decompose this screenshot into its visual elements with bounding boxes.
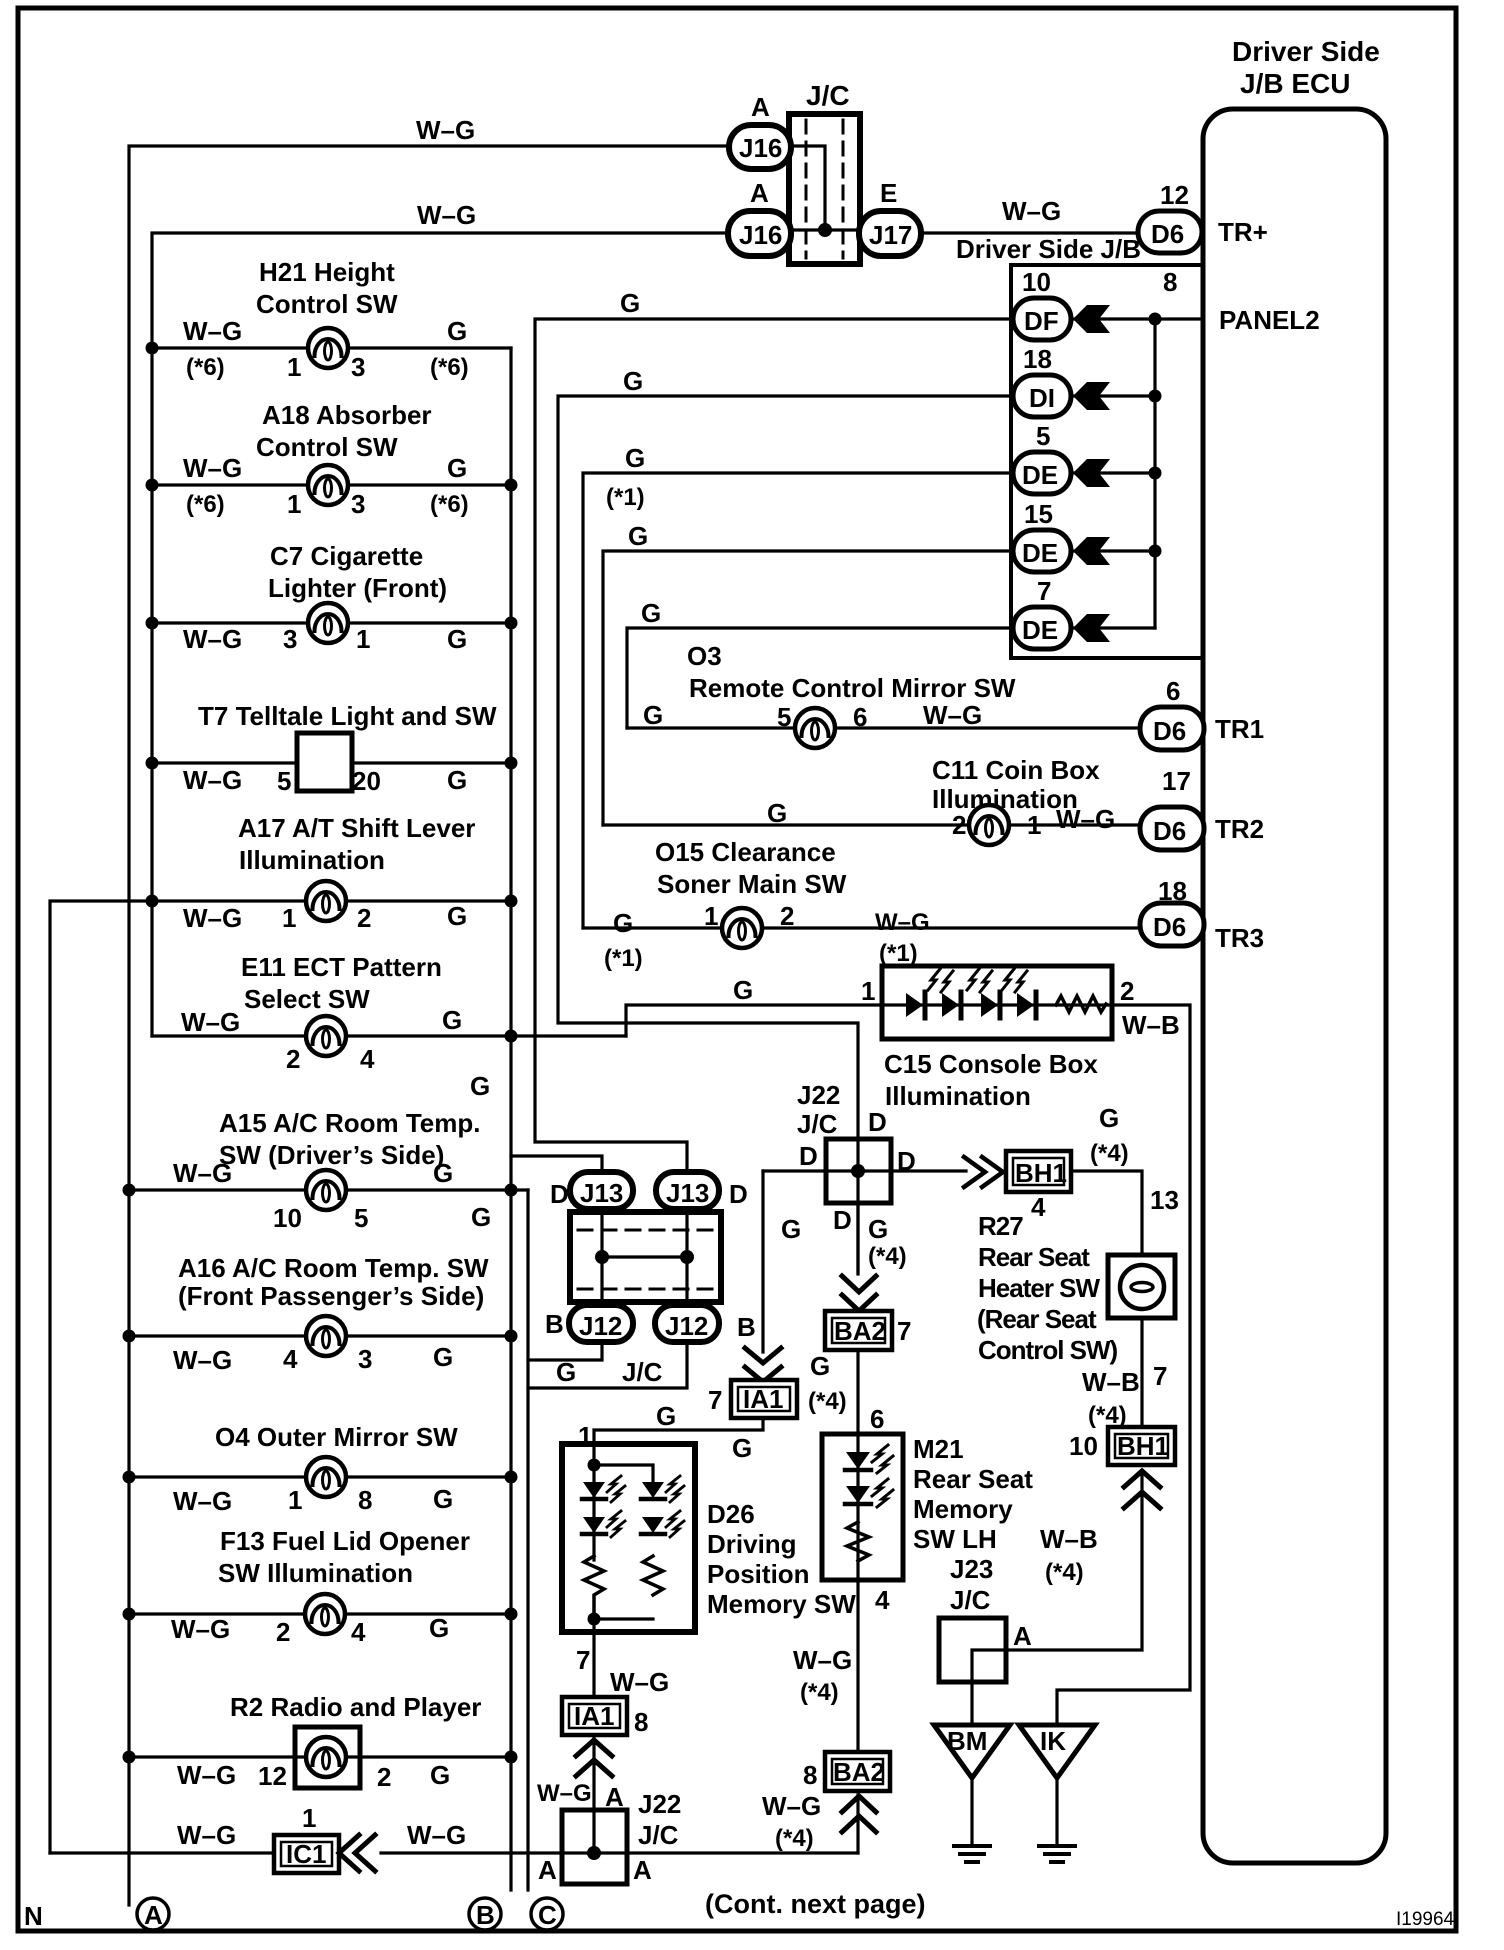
arrow below BH1 10 bbox=[1124, 1471, 1160, 1508]
svg-text:D6: D6 bbox=[1153, 716, 1186, 746]
svg-text:3: 3 bbox=[283, 624, 297, 654]
svg-text:G: G bbox=[868, 1214, 888, 1244]
connector DE pin 15 bbox=[1013, 499, 1071, 572]
svg-text:A17 A/T Shift Lever: A17 A/T Shift Lever bbox=[238, 813, 475, 843]
connector DF pin 10 bbox=[1013, 267, 1071, 340]
R27 Rear Seat Heater SW bbox=[977, 1211, 1175, 1365]
svg-text:7: 7 bbox=[708, 1385, 722, 1415]
LED R2 in D26 bbox=[641, 1511, 684, 1537]
wire through J/C to J17 bbox=[791, 228, 858, 231]
svg-text:G: G bbox=[447, 765, 467, 795]
svg-text:3: 3 bbox=[351, 352, 365, 382]
svg-text:J16: J16 bbox=[739, 133, 782, 163]
svg-text:W–G: W–G bbox=[923, 700, 982, 730]
wire G IA1 to D26 pin 1 bbox=[578, 1401, 763, 1465]
svg-text:J22: J22 bbox=[797, 1080, 840, 1110]
svg-text:C15 Console Box: C15 Console Box bbox=[884, 1049, 1098, 1079]
wire W-G J17 to D6 TR+ bbox=[921, 196, 1138, 233]
svg-text:2: 2 bbox=[286, 1044, 300, 1074]
wire G J/C J12 right to bus C bbox=[528, 1342, 687, 1388]
junction connector J/C box top bbox=[789, 80, 860, 264]
svg-text:5: 5 bbox=[354, 1203, 368, 1233]
svg-text:H21 Height: H21 Height bbox=[259, 257, 395, 287]
wire PANEL2 pin 8 bbox=[1071, 267, 1320, 335]
connector BH1 pin 10 bbox=[1069, 1427, 1175, 1465]
svg-text:J12: J12 bbox=[665, 1311, 708, 1341]
svg-text:J13: J13 bbox=[580, 1178, 623, 1208]
connector J16 pin A (top) bbox=[729, 92, 791, 169]
svg-text:W–G: W–G bbox=[416, 115, 475, 145]
svg-text:G: G bbox=[429, 1613, 449, 1643]
wire D26 pin 7 to IA1 bbox=[576, 1619, 669, 1697]
svg-text:(*1): (*1) bbox=[879, 940, 918, 967]
svg-text:DI: DI bbox=[1029, 383, 1055, 413]
node letter C bbox=[531, 1898, 563, 1930]
svg-text:6: 6 bbox=[1166, 676, 1180, 706]
svg-text:W–G: W–G bbox=[183, 903, 242, 933]
svg-text:4: 4 bbox=[351, 1617, 366, 1647]
svg-text:W–G: W–G bbox=[417, 200, 476, 230]
svg-text:G: G bbox=[656, 1401, 676, 1431]
svg-text:(*6): (*6) bbox=[186, 354, 225, 381]
svg-text:Illumination: Illumination bbox=[885, 1081, 1031, 1111]
svg-text:T7 Telltale Light and SW: T7 Telltale Light and SW bbox=[198, 701, 497, 731]
svg-text:W–G: W–G bbox=[875, 909, 930, 936]
svg-text:(*4): (*4) bbox=[775, 1825, 814, 1852]
connector BH1 pin 4 bbox=[1006, 1103, 1129, 1222]
svg-text:G: G bbox=[620, 288, 640, 318]
svg-text:PANEL2: PANEL2 bbox=[1219, 305, 1320, 335]
svg-text:(*1): (*1) bbox=[606, 484, 645, 511]
wire DE15 to bus bbox=[1071, 549, 1155, 552]
wire G from DF to J13 right bbox=[535, 288, 1013, 1172]
wire D26 left string bbox=[592, 1465, 595, 1560]
svg-text:3: 3 bbox=[351, 489, 365, 519]
wire W-G bus A top bbox=[129, 115, 729, 1905]
svg-text:Lighter (Front): Lighter (Front) bbox=[268, 573, 447, 603]
LED 2 in M21 bbox=[845, 1479, 893, 1507]
svg-text:C11 Coin Box: C11 Coin Box bbox=[932, 755, 1100, 785]
svg-text:1: 1 bbox=[861, 976, 875, 1006]
svg-text:2: 2 bbox=[276, 1617, 290, 1647]
svg-text:Position: Position bbox=[707, 1559, 810, 1589]
svg-text:10: 10 bbox=[1069, 1431, 1098, 1461]
lamp O4 Outer Mirror SW bbox=[123, 1422, 518, 1516]
svg-text:E: E bbox=[880, 178, 897, 208]
arrow into DF bbox=[1073, 305, 1110, 333]
svg-text:18: 18 bbox=[1023, 344, 1052, 374]
svg-text:Driver Side: Driver Side bbox=[1232, 36, 1380, 67]
svg-text:G: G bbox=[430, 1760, 450, 1790]
node J22 bottom bbox=[587, 1846, 601, 1860]
wire W-B from C15 pin 2 to IK bbox=[1057, 976, 1190, 1725]
svg-text:G: G bbox=[613, 908, 633, 938]
connector J13 right pin D bbox=[656, 1172, 748, 1209]
svg-text:2: 2 bbox=[1120, 976, 1134, 1006]
svg-text:A: A bbox=[750, 178, 769, 208]
svg-text:W–G: W–G bbox=[762, 1791, 821, 1821]
bus C vertical bbox=[526, 1190, 529, 1890]
svg-text:G: G bbox=[781, 1214, 801, 1244]
wire W-G IC1 row bbox=[50, 1803, 858, 1853]
arrow below IA1 8 bbox=[576, 1740, 612, 1776]
svg-text:BM: BM bbox=[947, 1726, 987, 1756]
arrow into BA2 8 bbox=[842, 1796, 876, 1832]
svg-text:G: G bbox=[643, 700, 663, 730]
svg-text:D6: D6 bbox=[1153, 912, 1186, 942]
connector IA1 pin 7 bbox=[708, 1214, 801, 1418]
svg-text:R27: R27 bbox=[978, 1211, 1023, 1241]
svg-text:W–G: W–G bbox=[183, 453, 242, 483]
ground IK bbox=[1019, 1725, 1095, 1862]
connector J13 left pin D bbox=[550, 1172, 633, 1209]
LED L1 in D26 bbox=[582, 1476, 625, 1502]
svg-text:Memory: Memory bbox=[913, 1494, 1013, 1524]
LED D1 in C15 bbox=[906, 992, 925, 1018]
svg-text:IA1: IA1 bbox=[574, 1701, 614, 1731]
node DE5 bus bbox=[1149, 467, 1162, 480]
svg-text:15: 15 bbox=[1024, 499, 1053, 529]
svg-text:DF: DF bbox=[1024, 306, 1059, 336]
svg-text:BH1: BH1 bbox=[1015, 1158, 1067, 1188]
Driver Side J/B box bbox=[956, 234, 1203, 658]
svg-text:Driver Side J/B: Driver Side J/B bbox=[956, 234, 1141, 264]
svg-text:10: 10 bbox=[273, 1203, 302, 1233]
svg-text:10: 10 bbox=[1022, 267, 1051, 297]
svg-text:G: G bbox=[767, 798, 787, 828]
connector D6 pin 6 TR1 bbox=[1140, 676, 1264, 750]
svg-text:G: G bbox=[433, 1342, 453, 1372]
svg-text:Control SW: Control SW bbox=[256, 289, 398, 319]
node D26 bottom bbox=[588, 1613, 601, 1626]
svg-text:Rear Seat: Rear Seat bbox=[978, 1242, 1090, 1272]
connector IA1 pin 8 bbox=[562, 1697, 648, 1737]
svg-text:1: 1 bbox=[356, 624, 370, 654]
lamp A17 A/T Shift Lever Illumination bbox=[50, 813, 518, 1853]
svg-text:G: G bbox=[447, 316, 467, 346]
wire J22 to IA1 drop bbox=[761, 1171, 764, 1352]
svg-text:TR1: TR1 bbox=[1215, 714, 1264, 744]
svg-text:TR2: TR2 bbox=[1215, 814, 1264, 844]
svg-text:W–G: W–G bbox=[181, 1007, 240, 1037]
LED R1 in D26 bbox=[641, 1476, 684, 1502]
lamp A15 A/C Room Temp. SW (Driver's Side) bbox=[123, 1108, 529, 1233]
svg-text:O3: O3 bbox=[687, 641, 722, 671]
svg-text:W–G: W–G bbox=[171, 1614, 230, 1644]
resistor in M21 bbox=[847, 1522, 869, 1561]
svg-text:7: 7 bbox=[897, 1316, 911, 1346]
node DI bus bbox=[1149, 390, 1162, 403]
svg-text:G: G bbox=[433, 1158, 453, 1188]
svg-text:D6: D6 bbox=[1153, 816, 1186, 846]
svg-text:J23: J23 bbox=[950, 1554, 993, 1584]
svg-text:BA2: BA2 bbox=[833, 1757, 885, 1787]
svg-text:(*4): (*4) bbox=[1090, 1140, 1129, 1167]
node letter B bbox=[469, 1898, 501, 1930]
svg-text:1: 1 bbox=[704, 901, 718, 931]
svg-text:W–G: W–G bbox=[183, 624, 242, 654]
wire W-G bus left2 top bbox=[152, 200, 728, 1036]
resistor in C15 bbox=[1056, 996, 1106, 1012]
svg-text:SW (Driver’s Side): SW (Driver’s Side) bbox=[219, 1140, 444, 1170]
svg-text:5: 5 bbox=[777, 702, 791, 732]
svg-text:3: 3 bbox=[358, 1344, 372, 1374]
arrow into DE 7 bbox=[1073, 614, 1110, 642]
svg-text:D: D bbox=[729, 1179, 748, 1209]
svg-text:(*6): (*6) bbox=[430, 354, 469, 381]
svg-text:W–G: W–G bbox=[173, 1486, 232, 1516]
lamp E11 ECT Pattern Select SW bbox=[152, 952, 626, 1101]
svg-text:5: 5 bbox=[1036, 421, 1050, 451]
svg-text:D: D bbox=[868, 1107, 887, 1137]
svg-text:20: 20 bbox=[352, 766, 381, 796]
svg-text:O15 Clearance: O15 Clearance bbox=[655, 837, 836, 867]
svg-text:(*6): (*6) bbox=[186, 491, 225, 518]
svg-text:W–G: W–G bbox=[173, 1345, 232, 1375]
wire DE7 to bus bbox=[1071, 626, 1155, 629]
svg-text:13: 13 bbox=[1150, 1185, 1179, 1215]
svg-text:G: G bbox=[556, 1357, 576, 1387]
bus B right vertical bbox=[509, 348, 512, 1890]
node inside J/C bbox=[818, 223, 832, 237]
node D26 top bbox=[588, 1459, 601, 1472]
svg-text:W–G: W–G bbox=[177, 1760, 236, 1790]
svg-text:G: G bbox=[447, 624, 467, 654]
wire W-G A IA1 to J22 bbox=[537, 1735, 624, 1853]
svg-text:4: 4 bbox=[360, 1044, 375, 1074]
svg-text:J22: J22 bbox=[638, 1789, 681, 1819]
svg-text:2: 2 bbox=[780, 901, 794, 931]
wire W-B (*4) heater to BH1 pin 7 bbox=[1082, 1318, 1167, 1429]
wire W-G (*4) BA2 8 to IC1 wire bbox=[762, 1791, 858, 1853]
svg-text:A: A bbox=[633, 1855, 652, 1885]
svg-text:Soner Main SW: Soner Main SW bbox=[657, 869, 847, 899]
svg-text:J/C: J/C bbox=[797, 1109, 838, 1139]
svg-text:J13: J13 bbox=[666, 1178, 709, 1208]
svg-text:2: 2 bbox=[357, 903, 371, 933]
svg-text:8: 8 bbox=[1163, 267, 1177, 297]
svg-text:M21: M21 bbox=[913, 1434, 964, 1464]
wire G (*4) BH1 to heater SW bbox=[1071, 1171, 1179, 1255]
svg-text:G: G bbox=[447, 453, 467, 483]
svg-text:D: D bbox=[550, 1179, 569, 1209]
svg-text:G: G bbox=[1099, 1103, 1119, 1133]
svg-text:8: 8 bbox=[634, 1707, 648, 1737]
svg-text:W–B: W–B bbox=[1122, 1010, 1180, 1040]
svg-text:Rear Seat: Rear Seat bbox=[913, 1464, 1033, 1494]
wire through J/C right bbox=[685, 1209, 688, 1305]
svg-text:J/C: J/C bbox=[806, 80, 850, 111]
svg-text:G: G bbox=[810, 1351, 830, 1381]
svg-text:(*6): (*6) bbox=[430, 491, 469, 518]
wire through J22 horizontal bbox=[763, 1169, 966, 1172]
arrow into BA2 7 bbox=[842, 1276, 876, 1311]
svg-text:R2 Radio and Player: R2 Radio and Player bbox=[230, 1692, 481, 1722]
svg-text:A16 A/C Room Temp. SW: A16 A/C Room Temp. SW bbox=[178, 1253, 489, 1283]
svg-text:W–G: W–G bbox=[1056, 804, 1115, 834]
node J/C left bbox=[595, 1250, 609, 1264]
svg-text:G: G bbox=[623, 366, 643, 396]
svg-text:A15 A/C Room Temp.: A15 A/C Room Temp. bbox=[219, 1108, 480, 1138]
arrow into DE 5 bbox=[1073, 459, 1110, 487]
svg-text:N: N bbox=[24, 1901, 43, 1931]
connector J12 right pin B bbox=[655, 1305, 756, 1342]
svg-text:(Front Passenger’s Side): (Front Passenger’s Side) bbox=[178, 1281, 484, 1311]
LED D3 in C15 bbox=[967, 969, 1000, 1018]
resistor left in D26 bbox=[584, 1556, 604, 1619]
svg-text:C7 Cigarette: C7 Cigarette bbox=[270, 541, 423, 571]
wire J/C middle link bbox=[602, 1255, 687, 1258]
svg-text:G: G bbox=[447, 901, 467, 931]
wire DE5 to bus bbox=[1071, 471, 1155, 474]
svg-text:W–G: W–G bbox=[183, 765, 242, 795]
wire G from DE15 to C11 bbox=[603, 521, 1013, 825]
node J/C right bbox=[680, 1250, 694, 1264]
C15 Console Box Illumination bbox=[882, 966, 1112, 1111]
connector DE pin 5 bbox=[1013, 421, 1071, 494]
node DE15 bus bbox=[1149, 545, 1162, 558]
svg-text:4: 4 bbox=[283, 1344, 298, 1374]
svg-text:W–G: W–G bbox=[1002, 196, 1061, 226]
svg-text:A: A bbox=[751, 92, 770, 122]
svg-text:Illumination: Illumination bbox=[239, 845, 385, 875]
connector D6 pin 12 TR+ bbox=[1138, 180, 1268, 253]
svg-text:7: 7 bbox=[576, 1645, 590, 1675]
lamp H21 Height Control SW bbox=[146, 257, 512, 382]
switch T7 Telltale Light and SW bbox=[146, 701, 518, 796]
connector J16 pin A (bottom) bbox=[728, 178, 791, 256]
LED D4 in C15 bbox=[1002, 969, 1036, 1018]
wire inside J/C from J16 A to node bbox=[791, 146, 825, 230]
junction connector J22 J/C box bbox=[797, 1080, 916, 1235]
svg-text:G: G bbox=[732, 1433, 752, 1463]
svg-text:SW Illumination: SW Illumination bbox=[218, 1558, 413, 1588]
svg-text:DE: DE bbox=[1022, 538, 1058, 568]
node J22 bbox=[851, 1164, 865, 1178]
svg-text:SW LH: SW LH bbox=[913, 1524, 997, 1554]
svg-text:D6: D6 bbox=[1151, 219, 1184, 249]
svg-text:J17: J17 bbox=[869, 220, 912, 250]
svg-text:G: G bbox=[470, 1071, 490, 1101]
lamp O3 Remote Control Mirror SW bbox=[627, 641, 1140, 748]
D26 Driving Position Memory SW bbox=[562, 1444, 856, 1632]
svg-text:W–B: W–B bbox=[1082, 1367, 1140, 1397]
svg-text:J/C: J/C bbox=[950, 1585, 991, 1615]
svg-text:(Rear Seat: (Rear Seat bbox=[977, 1304, 1097, 1334]
svg-text:8: 8 bbox=[803, 1760, 817, 1790]
svg-text:J/B ECU: J/B ECU bbox=[1240, 68, 1350, 99]
svg-text:1: 1 bbox=[282, 903, 296, 933]
svg-text:C: C bbox=[538, 1900, 557, 1930]
lamp O15 Clearance Soner Main SW bbox=[583, 837, 1140, 972]
svg-text:G: G bbox=[628, 521, 648, 551]
svg-text:(*4): (*4) bbox=[1045, 1559, 1084, 1586]
svg-text:4: 4 bbox=[1031, 1192, 1046, 1222]
wire W-G (*4) M21 pin 4 down bbox=[793, 1580, 890, 1752]
wire J23 to BM bbox=[970, 1682, 973, 1725]
svg-text:1: 1 bbox=[288, 1485, 302, 1515]
arrow into BH1 bbox=[964, 1157, 1003, 1187]
lamp C11 Coin Box Illumination bbox=[603, 755, 1140, 845]
svg-text:A: A bbox=[1013, 1621, 1032, 1651]
wire W-B (*4) BH1 to J23 A bbox=[1006, 1471, 1142, 1651]
svg-text:18: 18 bbox=[1158, 876, 1187, 906]
connector BA2 pin 8 bbox=[803, 1752, 890, 1791]
svg-text:1: 1 bbox=[302, 1803, 316, 1833]
svg-text:W–G: W–G bbox=[173, 1158, 232, 1188]
svg-text:B: B bbox=[737, 1312, 756, 1342]
svg-text:A: A bbox=[538, 1855, 557, 1885]
wire D26 bottom link bbox=[594, 1617, 653, 1620]
wire G (*4) J22 to BA2 bbox=[858, 1203, 907, 1274]
svg-text:W–G: W–G bbox=[407, 1820, 466, 1850]
node letter A bbox=[137, 1898, 169, 1930]
svg-text:Heater SW: Heater SW bbox=[978, 1273, 1100, 1303]
svg-text:D26: D26 bbox=[707, 1499, 755, 1529]
connector IC1 pin 1 bbox=[274, 1835, 339, 1873]
svg-text:F13 Fuel Lid Opener: F13 Fuel Lid Opener bbox=[220, 1526, 470, 1556]
wire bus B to J13 left bbox=[511, 1156, 602, 1172]
arrow into IC1 bbox=[339, 1835, 375, 1871]
svg-text:(*4): (*4) bbox=[800, 1679, 839, 1706]
svg-text:8: 8 bbox=[358, 1485, 372, 1515]
wire through J/C left bbox=[600, 1209, 603, 1305]
svg-text:DE: DE bbox=[1022, 460, 1058, 490]
wire G from DE7 to O3 bbox=[627, 598, 1013, 728]
lamp A18 Absorber Control SW bbox=[146, 400, 518, 519]
svg-text:4: 4 bbox=[875, 1585, 890, 1615]
svg-text:TR+: TR+ bbox=[1218, 217, 1268, 247]
wire inside J22 bottom bbox=[592, 1810, 595, 1853]
svg-text:G: G bbox=[442, 1005, 462, 1035]
LED L2 in D26 bbox=[582, 1511, 625, 1537]
svg-text:G: G bbox=[625, 443, 645, 473]
connector D6 pin 18 TR3 bbox=[1140, 876, 1264, 953]
svg-text:(Cont. next page): (Cont. next page) bbox=[705, 1889, 926, 1919]
svg-text:W–G: W–G bbox=[177, 1820, 236, 1850]
arrow into IA1 7 bbox=[745, 1348, 781, 1382]
svg-text:Driving: Driving bbox=[707, 1529, 797, 1559]
lamp R2 Radio and Player bbox=[123, 1692, 518, 1792]
wire DI to bus bbox=[1071, 394, 1155, 397]
svg-text:G: G bbox=[471, 1202, 491, 1232]
svg-text:TR3: TR3 bbox=[1215, 923, 1264, 953]
svg-text:1: 1 bbox=[1027, 810, 1041, 840]
wire through J22 vertical bbox=[856, 1139, 859, 1272]
svg-text:E11 ECT Pattern: E11 ECT Pattern bbox=[241, 952, 442, 982]
svg-text:O4 Outer Mirror SW: O4 Outer Mirror SW bbox=[215, 1422, 458, 1452]
svg-text:B: B bbox=[476, 1900, 495, 1930]
lamp F13 Fuel Lid Opener SW Illumination bbox=[123, 1526, 518, 1647]
junction connector J/C box middle bbox=[570, 1212, 721, 1302]
svg-text:7: 7 bbox=[1037, 576, 1051, 606]
svg-text:BH1: BH1 bbox=[1117, 1431, 1169, 1461]
svg-text:2: 2 bbox=[377, 1762, 391, 1792]
svg-text:W–B: W–B bbox=[1040, 1524, 1098, 1554]
connector D6 pin 17 TR2 bbox=[1140, 766, 1264, 850]
wire G from DI to J22 bbox=[558, 366, 1013, 1139]
svg-text:D: D bbox=[833, 1205, 852, 1235]
resistor right in D26 bbox=[643, 1556, 663, 1595]
svg-text:G: G bbox=[733, 975, 753, 1005]
connector DE pin 7 bbox=[1013, 576, 1071, 649]
svg-text:Select SW: Select SW bbox=[244, 984, 370, 1014]
svg-text:Remote Control Mirror SW: Remote Control Mirror SW bbox=[689, 673, 1016, 703]
svg-text:I19964: I19964 bbox=[1396, 1909, 1455, 1930]
lamp A16 A/C Room Temp. SW (Front Passenger's Side) bbox=[123, 1253, 518, 1375]
svg-text:G: G bbox=[641, 598, 661, 628]
wire J12 left to bus C bbox=[528, 1342, 602, 1360]
